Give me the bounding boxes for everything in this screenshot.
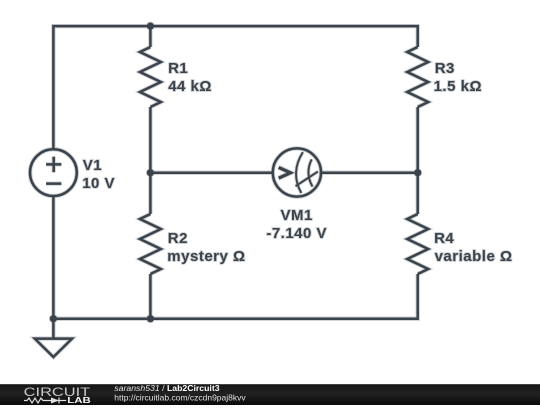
svg-text:LAB: LAB [67,396,91,405]
svg-text:http://circuitlab.com/czcdn9pa: http://circuitlab.com/czcdn9paj8kvv [114,393,246,403]
